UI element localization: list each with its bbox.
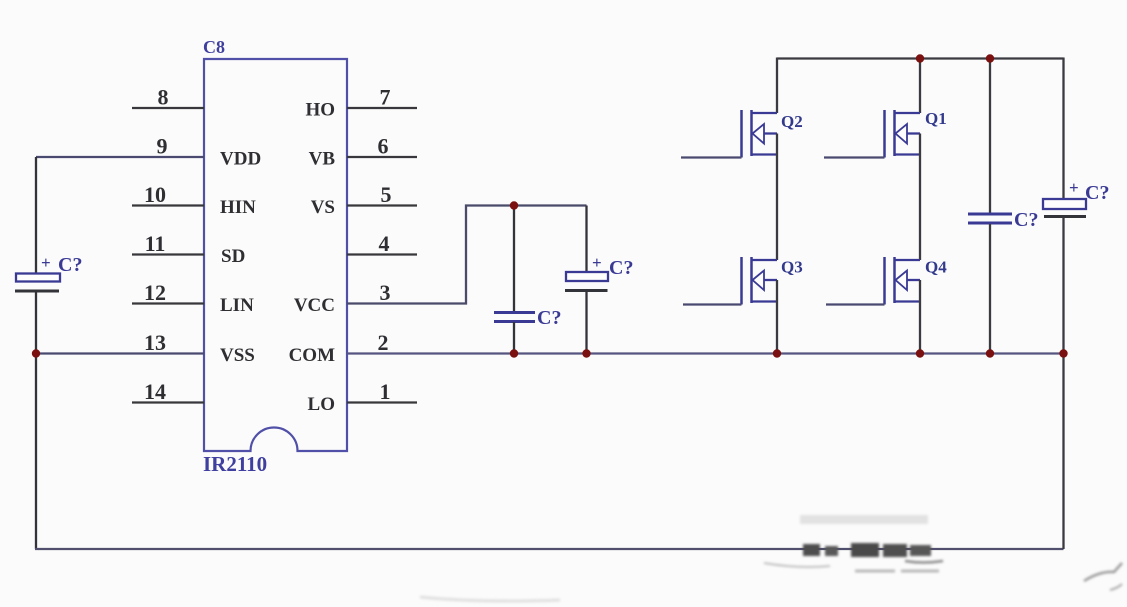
svg-text:12: 12 bbox=[144, 280, 166, 305]
wire bottom rail bbox=[35, 548, 1064, 550]
pin 2 bbox=[378, 330, 389, 355]
svg-text:LIN: LIN bbox=[220, 295, 254, 316]
pin 8 bbox=[132, 85, 204, 110]
svg-text:SD: SD bbox=[221, 246, 245, 267]
svg-text:Q1: Q1 bbox=[925, 109, 947, 128]
wire left vertical to bottom rail bbox=[35, 292, 37, 549]
svg-text:10: 10 bbox=[144, 182, 166, 207]
svg-text:VS: VS bbox=[311, 197, 335, 218]
pin 7 bbox=[347, 85, 417, 110]
capacitor C5 bottom plate bbox=[1044, 215, 1086, 218]
capacitor C2 lead bottom bbox=[513, 322, 515, 354]
svg-text:Q3: Q3 bbox=[781, 258, 803, 277]
capacitor C1 (left electrolytic C?) top plate bbox=[16, 274, 60, 282]
svg-text:C?: C? bbox=[58, 254, 82, 276]
pin 9 bbox=[36, 134, 204, 159]
node junction top rail Q1 bbox=[916, 54, 924, 62]
transistor Q2 bbox=[681, 58, 803, 261]
capacitor C5 (right electrolytic C?) lead top bbox=[1062, 58, 1064, 200]
node junction C2 bottom bbox=[510, 349, 518, 357]
svg-text:C?: C? bbox=[1014, 209, 1038, 231]
svg-text:+: + bbox=[592, 253, 602, 272]
node junction C3 bottom bbox=[582, 349, 590, 357]
capacitor C3 top plate bbox=[566, 272, 608, 281]
IC U1 IR2110 body outline bbox=[204, 59, 347, 451]
capacitor C3 (mid electrolytic C?) lead top bbox=[585, 206, 587, 273]
wire VCC pin3 to caps bbox=[347, 206, 587, 304]
svg-text:11: 11 bbox=[145, 231, 166, 256]
capacitor C3 bottom plate bbox=[565, 289, 608, 292]
svg-text:2: 2 bbox=[378, 330, 389, 355]
pin 13 bbox=[36, 330, 204, 355]
capacitor C2 bottom plate bbox=[494, 320, 535, 323]
node junction C4 bottom bbox=[986, 349, 994, 357]
svg-text:C?: C? bbox=[537, 307, 561, 329]
svg-text:C?: C? bbox=[1085, 182, 1109, 204]
node junction Q4 source bbox=[916, 349, 924, 357]
svg-text:7: 7 bbox=[380, 85, 391, 110]
svg-text:Q2: Q2 bbox=[781, 112, 803, 131]
svg-text:VCC: VCC bbox=[294, 295, 335, 316]
svg-text:6: 6 bbox=[378, 134, 389, 159]
capacitor C2 top plate bbox=[494, 311, 535, 314]
capacitor C4 bottom plate bbox=[968, 222, 1012, 225]
svg-text:14: 14 bbox=[144, 379, 166, 404]
capacitor C1 bottom plate bbox=[15, 290, 59, 293]
svg-text:+: + bbox=[1069, 178, 1079, 197]
wire top rail bbox=[777, 57, 1064, 59]
svg-text:HIN: HIN bbox=[220, 197, 256, 218]
svg-text:VB: VB bbox=[309, 149, 336, 170]
capacitor C4 (right ceramic C?) lead top bbox=[989, 59, 991, 214]
svg-text:C?: C? bbox=[609, 257, 633, 279]
watermark corner squiggle bbox=[420, 563, 1122, 601]
capacitor C3 lead bottom bbox=[585, 292, 587, 354]
svg-text:HO: HO bbox=[305, 100, 335, 121]
svg-text:3: 3 bbox=[380, 280, 391, 305]
svg-text:9: 9 bbox=[157, 134, 168, 159]
svg-text:COM: COM bbox=[289, 345, 336, 366]
node junction C5 bottom rail bbox=[1059, 349, 1067, 357]
svg-text:VSS: VSS bbox=[220, 345, 255, 366]
svg-text:Q4: Q4 bbox=[925, 258, 947, 277]
pin 5 bbox=[347, 182, 417, 207]
pin 11 bbox=[132, 231, 204, 256]
wire VDD left vertical branch bbox=[35, 157, 37, 273]
node junction top rail C4 bbox=[986, 54, 994, 62]
svg-text:4: 4 bbox=[379, 231, 390, 256]
svg-text:IR2110: IR2110 bbox=[203, 452, 267, 476]
svg-text:C8: C8 bbox=[203, 37, 225, 57]
pin 14 bbox=[132, 379, 204, 404]
transistor Q4 bbox=[826, 257, 947, 354]
svg-text:LO: LO bbox=[308, 394, 335, 415]
capacitor C5 top plate bbox=[1043, 199, 1086, 209]
svg-text:1: 1 bbox=[380, 379, 391, 404]
svg-text:8: 8 bbox=[158, 85, 169, 110]
svg-text:5: 5 bbox=[381, 182, 392, 207]
node junction VCC top bbox=[510, 201, 518, 209]
node junction VSS/left cap bbox=[32, 349, 40, 357]
wire COM rail bbox=[347, 352, 1064, 354]
pin 6 bbox=[347, 134, 417, 159]
pin 1 bbox=[347, 379, 417, 404]
pin 4 bbox=[347, 231, 417, 256]
capacitor C5 lead bottom / right vertical bbox=[1062, 218, 1064, 550]
transistor Q3 bbox=[683, 257, 803, 354]
pin 12 bbox=[132, 280, 204, 305]
capacitor C4 top plate bbox=[968, 213, 1012, 216]
node junction Q3 source bbox=[773, 349, 781, 357]
watermark smudge bbox=[764, 515, 943, 571]
svg-text:+: + bbox=[41, 253, 51, 272]
capacitor C2 (mid ceramic C?) lead top bbox=[513, 206, 515, 312]
svg-text:13: 13 bbox=[144, 330, 166, 355]
pin 10 bbox=[132, 182, 204, 207]
svg-text:VDD: VDD bbox=[220, 149, 261, 170]
capacitor C4 lead bottom bbox=[989, 224, 991, 354]
pin 3 bbox=[380, 280, 391, 305]
transistor Q1 bbox=[824, 58, 947, 261]
